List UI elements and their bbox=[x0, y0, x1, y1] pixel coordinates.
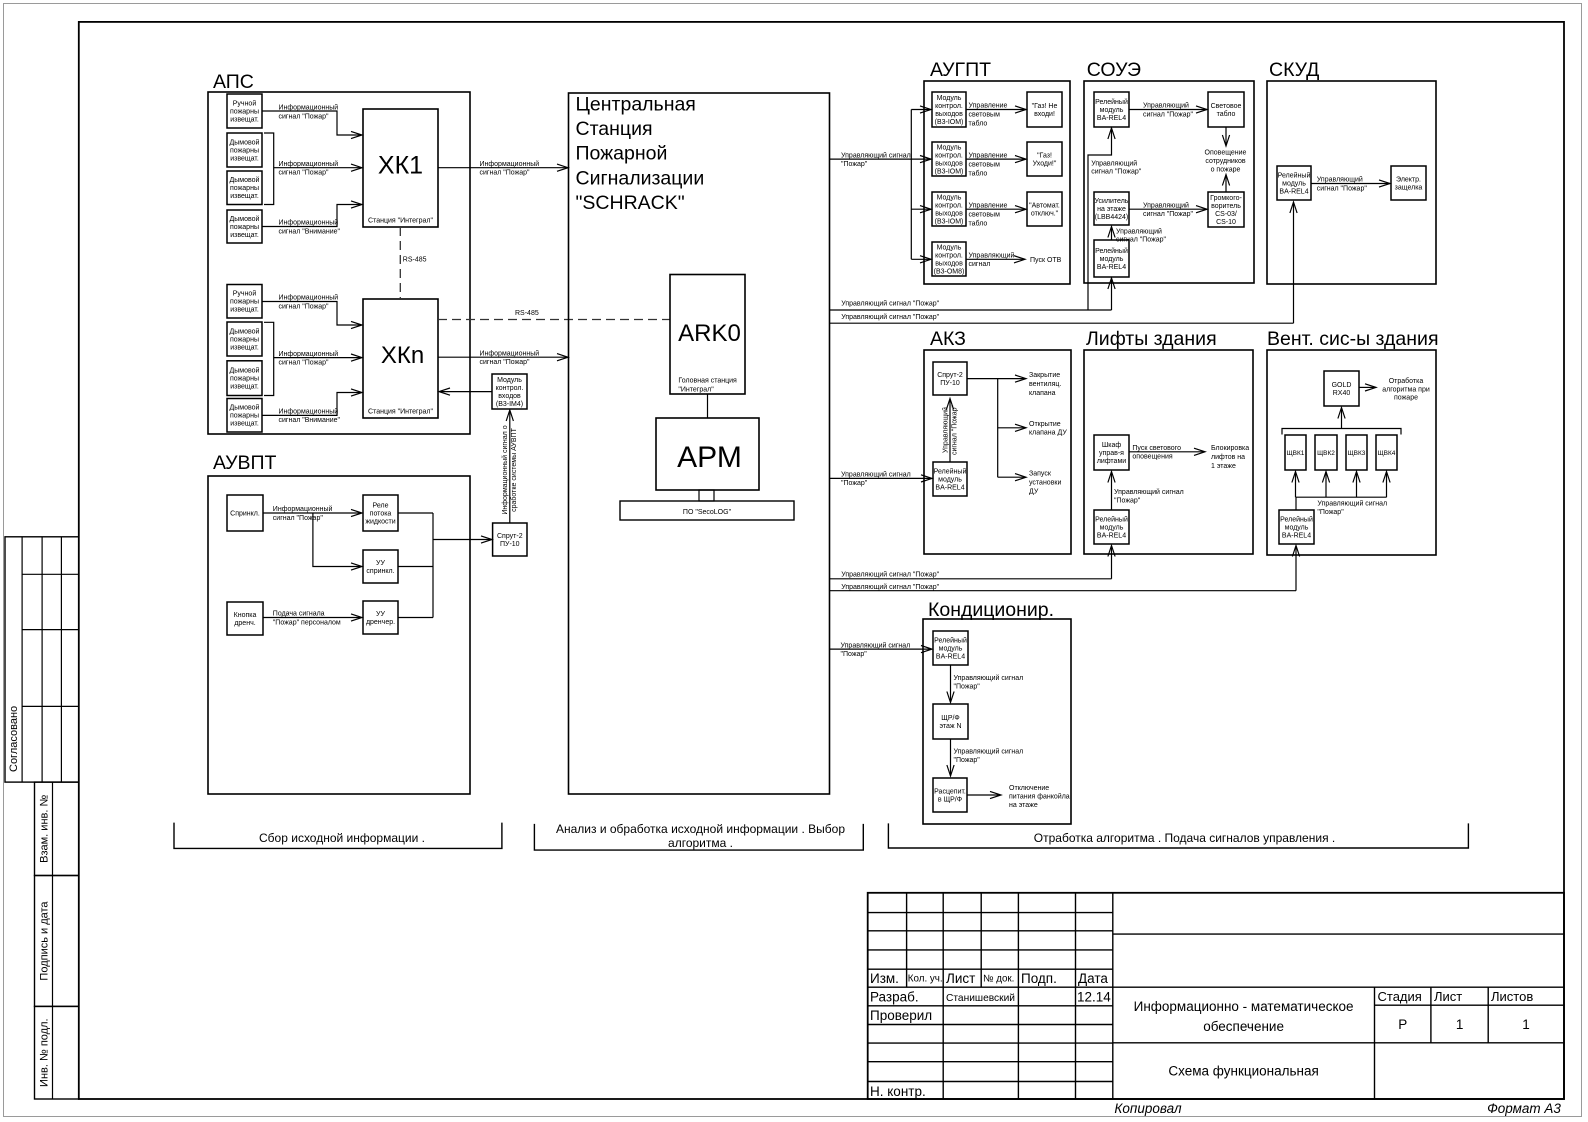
relay module BA-REL4 (Кондиционир) bbox=[933, 631, 968, 665]
dashed RS-485 link ХКn to ARK0 bbox=[438, 319, 670, 321]
relay module BA-REL4 (Вент) bbox=[1279, 510, 1314, 544]
detector box 8 (smoke) bbox=[227, 399, 262, 433]
svg-text:Усилитель: Усилитель bbox=[1095, 198, 1129, 205]
svg-text:Ручной: Ручной bbox=[233, 100, 257, 108]
svg-text:управ-я: управ-я bbox=[1099, 450, 1124, 457]
wire bracket to ХК1 bbox=[274, 167, 361, 169]
svg-text:алгоритма .: алгоритма . bbox=[668, 836, 733, 850]
svg-text:Реле: Реле bbox=[373, 503, 389, 510]
svg-text:Управляющий: Управляющий bbox=[1091, 160, 1137, 168]
bracket over ЩВК blocks bbox=[1282, 429, 1401, 435]
svg-text:BA-REL4: BA-REL4 bbox=[1097, 264, 1126, 271]
svg-text:RX40: RX40 bbox=[1333, 390, 1351, 397]
svg-text:пожарны: пожарны bbox=[230, 109, 259, 116]
svg-text:лифтами: лифтами bbox=[1097, 458, 1126, 465]
svg-text:Дымовой: Дымовой bbox=[230, 176, 260, 184]
svg-text:Управляющий: Управляющий bbox=[1143, 201, 1189, 209]
svg-text:Информационный: Информационный bbox=[273, 505, 333, 513]
svg-text:Информационный: Информационный bbox=[480, 349, 540, 357]
wire detector1 to ХК1 bbox=[262, 111, 361, 135]
wire ХКn output to central station bbox=[438, 356, 567, 358]
svg-text:12.14: 12.14 bbox=[1077, 990, 1111, 1005]
svg-text:клапана ДУ: клапана ДУ bbox=[1029, 430, 1067, 437]
svg-text:Лифты здания: Лифты здания bbox=[1086, 328, 1217, 350]
svg-text:Сбор исходной информации .: Сбор исходной информации . bbox=[259, 831, 425, 845]
bracket Сбор исходной информации bbox=[174, 823, 502, 849]
wire detector4 to ХК1 bbox=[262, 205, 361, 227]
svg-text:сигнал "Внимание": сигнал "Внимание" bbox=[279, 228, 341, 235]
margin table Согласовано bbox=[5, 537, 79, 782]
svg-text:Управление: Управление bbox=[969, 152, 1008, 159]
svg-text:Управляющий сигнал "Пожар": Управляющий сигнал "Пожар" bbox=[841, 313, 939, 321]
svg-text:Информационный: Информационный bbox=[279, 104, 339, 112]
wire ЩР/Ф to Расцепит bbox=[950, 739, 952, 775]
bracket detectors 6-7 bbox=[264, 322, 274, 395]
svg-text:сигнал "Пожар": сигнал "Пожар" bbox=[279, 359, 330, 366]
svg-text:ЩВК4: ЩВК4 bbox=[1378, 450, 1396, 457]
svg-text:сигнал "Пожар": сигнал "Пожар" bbox=[1317, 185, 1368, 192]
svg-text:Управляющий: Управляющий bbox=[969, 252, 1015, 260]
detector box 6 (smoke) bbox=[227, 322, 262, 356]
svg-text:контрол.: контрол. bbox=[935, 152, 963, 159]
svg-text:СОУЭ: СОУЭ bbox=[1087, 59, 1141, 81]
svg-text:Информационный: Информационный bbox=[279, 408, 339, 416]
APS enclosure box bbox=[208, 92, 470, 434]
wire relay to Световое табло bbox=[1129, 109, 1207, 111]
svg-text:УУ: УУ bbox=[376, 560, 385, 567]
svg-text:сигнал "Пожар": сигнал "Пожар" bbox=[1091, 169, 1142, 176]
svg-text:Уходи!": Уходи!" bbox=[1033, 160, 1057, 167]
svg-text:Модуль: Модуль bbox=[497, 377, 522, 384]
svg-text:дренч.: дренч. bbox=[234, 620, 255, 627]
detector box 3 (smoke) bbox=[227, 171, 262, 205]
wire detector5 to ХКn bbox=[262, 302, 361, 326]
svg-text:Листов: Листов bbox=[1491, 989, 1533, 1004]
block УУ спринкл. bbox=[363, 550, 398, 583]
svg-text:световым: световым bbox=[969, 161, 1001, 168]
svg-text:"Интеграл": "Интеграл" bbox=[678, 386, 714, 393]
svg-text:ПУ-10: ПУ-10 bbox=[500, 541, 520, 548]
svg-text:(В3-IOM): (В3-IOM) bbox=[935, 119, 964, 126]
svg-text:пожарны: пожарны bbox=[230, 224, 259, 231]
svg-text:сигнал "Пожар": сигнал "Пожар" bbox=[1143, 111, 1194, 118]
svg-text:сигнал "Пожар": сигнал "Пожар" bbox=[279, 303, 330, 310]
svg-text:модуль: модуль bbox=[1285, 525, 1309, 532]
detector box 2 (smoke) bbox=[227, 133, 262, 167]
svg-text:АПС: АПС bbox=[213, 71, 254, 93]
wire Усилитель to Громкоговоритель bbox=[1129, 208, 1207, 210]
svg-text:Управляющий сигнал: Управляющий сигнал bbox=[1317, 500, 1387, 508]
svg-text:"SCHRACK": "SCHRACK" bbox=[576, 192, 685, 214]
wire detector8 to ХКn bbox=[262, 393, 361, 416]
wire GOLD RX40 output bbox=[1359, 386, 1375, 388]
svg-text:Управляющий: Управляющий bbox=[1116, 228, 1162, 236]
svg-text:контрол.: контрол. bbox=[935, 103, 963, 110]
Vent enclosure box bbox=[1267, 350, 1436, 555]
svg-text:Станция "Интеграл": Станция "Интеграл" bbox=[368, 409, 433, 416]
svg-text:сработке системы АУВПТ: сработке системы АУВПТ bbox=[510, 427, 518, 511]
svg-text:BA-REL4: BA-REL4 bbox=[1097, 115, 1126, 122]
wire Расцепит output bbox=[967, 794, 1000, 796]
svg-text:пожарны: пожарны bbox=[230, 185, 259, 192]
svg-text:входов: входов bbox=[498, 393, 521, 400]
module B3-IM4 input control bbox=[492, 374, 527, 409]
svg-text:Отключение: Отключение bbox=[1009, 785, 1049, 792]
wire central to AUGPT trunk bbox=[830, 110, 931, 260]
svg-text:Стадия: Стадия bbox=[1378, 989, 1422, 1004]
svg-text:ДУ: ДУ bbox=[1029, 488, 1039, 495]
svg-text:Оповещение: Оповещение bbox=[1205, 150, 1247, 157]
wire Громкоговоритель notification arrow bbox=[1225, 176, 1227, 192]
svg-text:RS-485: RS-485 bbox=[403, 257, 427, 264]
svg-text:оповещения: оповещения bbox=[1132, 454, 1172, 461]
svg-text:клапана: клапана bbox=[1029, 390, 1056, 397]
svg-text:Модуль: Модуль bbox=[937, 144, 962, 151]
svg-text:"Пожар": "Пожар" bbox=[841, 651, 868, 658]
svg-text:АРМ: АРМ bbox=[677, 441, 742, 474]
svg-text:извещат.: извещат. bbox=[230, 117, 259, 124]
AKZ enclosure box bbox=[924, 350, 1071, 554]
svg-text:Дымовой: Дымовой bbox=[230, 404, 260, 412]
block Реле потока жидкости bbox=[363, 495, 398, 531]
svg-text:"Автомат.: "Автомат. bbox=[1029, 202, 1060, 209]
svg-text:Подпись и дата: Подпись и дата bbox=[39, 901, 51, 981]
svg-text:Управляющий сигнал "Пожар": Управляющий сигнал "Пожар" bbox=[841, 583, 939, 591]
svg-text:Кондиционир.: Кондиционир. bbox=[928, 599, 1054, 621]
SOUE enclosure box bbox=[1084, 81, 1254, 283]
margin cell Взам. инв. № bbox=[35, 782, 79, 875]
svg-text:Управляющий сигнал: Управляющий сигнал bbox=[841, 641, 911, 649]
block Кнопка дренч. bbox=[227, 602, 263, 635]
svg-text:Лист: Лист bbox=[1434, 989, 1462, 1004]
svg-text:Центральная: Центральная bbox=[576, 94, 696, 116]
svg-text:Управляющий сигнал: Управляющий сигнал bbox=[841, 151, 911, 159]
svg-text:"Пожар" персоналом: "Пожар" персоналом bbox=[273, 619, 341, 626]
wire Лифты relay to Шкаф bbox=[1111, 473, 1113, 510]
svg-text:табло: табло bbox=[969, 120, 988, 128]
svg-text:световым: световым bbox=[969, 112, 1001, 119]
detector box 1 (manual, upper) bbox=[227, 94, 262, 128]
block Спринкл. bbox=[227, 495, 263, 531]
svg-text:Подача сигнала: Подача сигнала bbox=[273, 611, 325, 618]
block ЩВК4 bbox=[1376, 435, 1397, 470]
svg-text:Анализ и обработка исходной ин: Анализ и обработка исходной информации .… bbox=[556, 822, 845, 836]
svg-text:извещат.: извещат. bbox=[230, 344, 259, 351]
svg-text:(В3-IOM): (В3-IOM) bbox=[935, 218, 964, 225]
svg-text:сигнал "Пожар": сигнал "Пожар" bbox=[1116, 237, 1167, 244]
svg-text:Модуль: Модуль bbox=[937, 244, 962, 251]
title block frame bbox=[868, 893, 1564, 1099]
svg-text:извещат.: извещат. bbox=[230, 193, 259, 200]
svg-text:1 этаже: 1 этаже bbox=[1211, 463, 1236, 470]
svg-text:Кнопка: Кнопка bbox=[234, 612, 257, 619]
svg-text:1: 1 bbox=[1522, 1017, 1530, 1032]
svg-text:Схема функциональная: Схема функциональная bbox=[1168, 1064, 1318, 1079]
block Расцепит. в ЩР/Ф bbox=[933, 778, 967, 812]
svg-text:АКЗ: АКЗ bbox=[930, 328, 966, 350]
wire lower relay to Усилитель bbox=[1111, 228, 1113, 240]
svg-text:воритель: воритель bbox=[1211, 203, 1241, 210]
svg-text:Изм.: Изм. bbox=[870, 971, 899, 986]
svg-text:Релейный: Релейный bbox=[1095, 98, 1128, 106]
APM stand connector bbox=[699, 490, 714, 501]
svg-text:контрол.: контрол. bbox=[496, 385, 524, 392]
margin cell Подпись и дата bbox=[35, 876, 79, 1007]
svg-text:Релейный: Релейный bbox=[1278, 171, 1311, 179]
svg-text:Спринкл.: Спринкл. bbox=[230, 511, 260, 518]
svg-text:BA-REL4: BA-REL4 bbox=[936, 654, 965, 661]
bracket detectors 2-3 bbox=[264, 133, 274, 205]
svg-text:Информационный: Информационный bbox=[279, 160, 339, 168]
svg-text:Копировал: Копировал bbox=[1114, 1101, 1182, 1116]
svg-text:"Пожар": "Пожар" bbox=[841, 161, 868, 168]
sign Газ! Уходи! bbox=[1027, 142, 1062, 176]
wire bus to СКУД relay bbox=[1293, 203, 1295, 323]
svg-text:ХК1: ХК1 bbox=[378, 152, 423, 180]
svg-text:табло: табло bbox=[969, 169, 988, 177]
block АРМ workstation bbox=[656, 418, 759, 490]
svg-text:Громкого-: Громкого- bbox=[1210, 195, 1242, 202]
wire bracket to ХКn bbox=[274, 357, 361, 359]
svg-text:ПО "SecoLOG": ПО "SecoLOG" bbox=[683, 509, 732, 516]
svg-text:Управляющий: Управляющий bbox=[1143, 102, 1189, 110]
svg-text:ПУ-10: ПУ-10 bbox=[940, 380, 960, 387]
svg-text:извещат.: извещат. bbox=[230, 384, 259, 391]
svg-text:Шкаф: Шкаф bbox=[1102, 442, 1122, 449]
block Спрут-2 ПУ-10 (АУВПТ) bbox=[493, 523, 527, 556]
sign Автомат. отключ. bbox=[1027, 192, 1062, 226]
svg-text:Дата: Дата bbox=[1078, 971, 1108, 986]
svg-text:Станция "Интеграл": Станция "Интеграл" bbox=[368, 218, 433, 225]
wire module3 to sign3 bbox=[966, 208, 1026, 210]
wire Спрут-2 to module B3-IM4 bbox=[509, 411, 511, 523]
svg-text:сигнал "Пожар": сигнал "Пожар" bbox=[480, 359, 531, 366]
svg-text:BA-REL4: BA-REL4 bbox=[935, 484, 964, 491]
svg-text:Управляющий: Управляющий bbox=[1317, 176, 1363, 184]
svg-text:АУГПТ: АУГПТ bbox=[930, 59, 991, 81]
svg-text:сигнал "Пожар": сигнал "Пожар" bbox=[952, 404, 959, 455]
svg-text:Релейный: Релейный bbox=[1095, 516, 1128, 524]
svg-text:Модуль: Модуль bbox=[937, 95, 962, 102]
svg-text:СКУД: СКУД bbox=[1269, 59, 1319, 81]
block Электр. защелка bbox=[1391, 166, 1426, 200]
svg-text:"Пожар": "Пожар" bbox=[841, 480, 868, 487]
svg-text:Дымовой: Дымовой bbox=[230, 367, 260, 375]
svg-text:выходов: выходов bbox=[935, 260, 963, 267]
svg-text:Открытие: Открытие bbox=[1029, 421, 1061, 428]
svg-text:Информационный сигнал о: Информационный сигнал о bbox=[501, 425, 509, 514]
block ЩВК3 bbox=[1346, 435, 1367, 470]
svg-text:входи!: входи! bbox=[1034, 111, 1055, 118]
svg-text:"Пожар": "Пожар" bbox=[1317, 509, 1344, 516]
svg-text:Управление: Управление bbox=[969, 103, 1008, 110]
svg-text:(В3-ОМ8): (В3-ОМ8) bbox=[934, 268, 965, 275]
block Спрут-2 ПУ-10 (АКЗ) bbox=[933, 362, 967, 395]
AUVPT enclosure box bbox=[208, 476, 470, 794]
svg-text:Подп.: Подп. bbox=[1021, 971, 1057, 986]
svg-text:ЩВК2: ЩВК2 bbox=[1317, 450, 1335, 457]
svg-text:Дымовой: Дымовой bbox=[230, 327, 260, 335]
svg-text:табло: табло bbox=[969, 219, 988, 227]
wire ARK0 to APM bbox=[707, 394, 709, 418]
svg-text:Закрытие: Закрытие bbox=[1029, 372, 1060, 379]
svg-text:Релейный: Релейный bbox=[1280, 516, 1313, 524]
detector box 4 (smoke) bbox=[227, 210, 262, 243]
svg-text:обеспечение: обеспечение bbox=[1203, 1019, 1284, 1034]
svg-text:Головная станция: Головная станция bbox=[678, 378, 737, 385]
svg-text:защелка: защелка bbox=[1395, 184, 1423, 191]
svg-text:Управляющий сигнал: Управляющий сигнал bbox=[1114, 488, 1184, 496]
svg-text:извещат.: извещат. bbox=[230, 421, 259, 428]
svg-text:GOLD: GOLD bbox=[1332, 382, 1352, 389]
svg-text:Пожарной: Пожарной bbox=[576, 143, 668, 165]
block ЩВК2 bbox=[1315, 435, 1337, 470]
svg-text:BA-REL4: BA-REL4 bbox=[1097, 533, 1126, 540]
svg-text:Управление: Управление bbox=[969, 202, 1008, 209]
svg-text:Станция: Станция bbox=[576, 118, 653, 140]
svg-text:RS-485: RS-485 bbox=[515, 310, 539, 317]
wire bus to СОУЭ upper relay bbox=[1088, 129, 1112, 310]
block ARK0 head station bbox=[670, 275, 745, 395]
svg-text:Спрут-2: Спрут-2 bbox=[497, 533, 523, 540]
svg-text:BA-REL4: BA-REL4 bbox=[1279, 188, 1308, 195]
svg-text:этаж N: этаж N bbox=[939, 723, 961, 730]
svg-text:Управляющий сигнал: Управляющий сигнал bbox=[954, 674, 1024, 682]
block GOLD RX40 bbox=[1324, 371, 1359, 406]
svg-text:Ручной: Ручной bbox=[233, 290, 257, 298]
wire module B3-IM4 to ХКn bbox=[440, 391, 492, 393]
relay module BA-REL4 (Лифты) bbox=[1094, 510, 1129, 544]
svg-text:Пуск светового: Пуск светового bbox=[1132, 445, 1181, 452]
svg-text:сигнал "Пожар": сигнал "Пожар" bbox=[279, 170, 330, 177]
svg-text:в ЩР/Ф: в ЩР/Ф bbox=[938, 797, 962, 804]
svg-text:"Пожар": "Пожар" bbox=[954, 684, 981, 691]
svg-text:"Газ! Не: "Газ! Не bbox=[1032, 103, 1058, 110]
svg-text:пожаре: пожаре bbox=[1394, 395, 1418, 402]
wire Кнопка дренч. to УУ дренчер. bbox=[263, 617, 361, 619]
svg-text:модуль: модуль bbox=[1100, 107, 1124, 114]
relay module BA-REL4 (АКЗ) bbox=[933, 462, 967, 496]
svg-text:модуль: модуль bbox=[1100, 525, 1124, 532]
svg-text:Управляющий сигнал "Пожар": Управляющий сигнал "Пожар" bbox=[841, 571, 939, 579]
wire central to АКЗ relay bbox=[830, 477, 932, 479]
svg-text:сигнал "Внимание": сигнал "Внимание" bbox=[279, 417, 341, 424]
svg-text:Релейный: Релейный bbox=[934, 637, 967, 645]
svg-text:пожарны: пожарны bbox=[230, 413, 259, 420]
svg-text:жидкости: жидкости bbox=[365, 519, 395, 526]
svg-text:извещат.: извещат. bbox=[230, 232, 259, 239]
wire Шкаф output Пуск светового оповещения bbox=[1129, 451, 1204, 453]
svg-text:Электр.: Электр. bbox=[1396, 176, 1421, 183]
svg-text:сигнал "Пожар": сигнал "Пожар" bbox=[279, 113, 330, 120]
svg-text:Н. контр.: Н. контр. bbox=[870, 1084, 926, 1099]
relay module BA-REL4 (СОУЭ upper) bbox=[1094, 92, 1129, 127]
svg-text:пожарны: пожарны bbox=[230, 147, 259, 154]
svg-text:Световое: Световое bbox=[1211, 103, 1242, 110]
svg-text:модуль: модуль bbox=[938, 476, 962, 483]
bracket Отработка алгоритма bbox=[888, 823, 1468, 848]
Lifts enclosure box bbox=[1084, 350, 1253, 554]
svg-text:Управляющий сигнал "Пожар": Управляющий сигнал "Пожар" bbox=[841, 300, 939, 308]
svg-text:потока: потока bbox=[370, 511, 392, 518]
module B3-OM8 bbox=[932, 242, 966, 276]
detector box 7 (smoke) bbox=[227, 361, 262, 396]
svg-text:Вент. сис-ы здания: Вент. сис-ы здания bbox=[1267, 328, 1439, 350]
module B3-IOM 3 bbox=[932, 192, 966, 226]
svg-text:(В3-IOM): (В3-IOM) bbox=[935, 168, 964, 175]
svg-text:пожарны: пожарны bbox=[230, 336, 259, 343]
svg-text:ХКn: ХКn bbox=[381, 342, 424, 369]
svg-text:Взам. инв. №: Взам. инв. № bbox=[39, 795, 51, 863]
svg-text:алгоритма при: алгоритма при bbox=[1382, 386, 1430, 393]
svg-text:Информационный: Информационный bbox=[279, 350, 339, 358]
svg-text:Дымовой: Дымовой bbox=[230, 138, 260, 146]
title block right structure bbox=[1113, 933, 1564, 935]
wire ХК1 output to central station bbox=[438, 167, 567, 169]
svg-text:пожарны: пожарны bbox=[230, 376, 259, 383]
wire module4 output Пуск ОТВ bbox=[966, 258, 1024, 260]
block Шкаф управ-я лифтами bbox=[1094, 435, 1129, 470]
svg-text:вентиляц.: вентиляц. bbox=[1029, 381, 1061, 388]
wire relay to ЩР/Ф bbox=[950, 665, 952, 701]
svg-text:Управляющий сигнал: Управляющий сигнал bbox=[954, 748, 1024, 756]
relay module BA-REL4 (СКУД) bbox=[1277, 166, 1311, 200]
svg-text:Спрут-2: Спрут-2 bbox=[937, 372, 963, 379]
dashed RS-485 link ХК1-ХКn bbox=[399, 227, 401, 299]
svg-text:BA-REL4: BA-REL4 bbox=[1282, 533, 1311, 540]
svg-text:1: 1 bbox=[1456, 1017, 1464, 1032]
svg-text:(В3-IM4): (В3-IM4) bbox=[496, 401, 523, 408]
wire relay to Электр. защелка bbox=[1311, 183, 1390, 185]
SKUD enclosure box bbox=[1267, 81, 1436, 284]
svg-text:ЩВК1: ЩВК1 bbox=[1287, 450, 1305, 457]
bus wire 2 Управляющий сигнал Пожар (to СКУД) bbox=[830, 322, 1294, 324]
svg-text:Станишевский: Станишевский bbox=[946, 993, 1015, 1004]
svg-text:№ док.: № док. bbox=[983, 974, 1014, 985]
svg-text:питания фанкойла: питания фанкойла bbox=[1009, 793, 1070, 801]
svg-text:Модуль: Модуль bbox=[937, 194, 962, 201]
block Громкоговоритель CS-03/CS-10 bbox=[1208, 192, 1244, 227]
svg-text:ЩР/Ф: ЩР/Ф bbox=[941, 715, 960, 722]
svg-text:Информационный: Информационный bbox=[279, 294, 339, 302]
wire Вент relay to ЩВК blocks bbox=[1296, 473, 1387, 510]
svg-text:CS-03/: CS-03/ bbox=[1215, 211, 1237, 218]
svg-text:выходов: выходов bbox=[935, 210, 963, 217]
svg-text:АУВПТ: АУВПТ bbox=[213, 452, 277, 474]
svg-text:Формат А3: Формат А3 bbox=[1487, 1101, 1561, 1116]
svg-text:Согласовано: Согласовано bbox=[8, 706, 20, 772]
svg-text:ЩВК3: ЩВК3 bbox=[1348, 450, 1366, 457]
svg-text:Управляющий сигнал: Управляющий сигнал bbox=[841, 471, 911, 479]
svg-text:УУ: УУ bbox=[376, 611, 385, 618]
block ЩВК1 bbox=[1285, 435, 1306, 470]
svg-text:Информационный: Информационный bbox=[480, 160, 540, 168]
svg-text:пожарны: пожарны bbox=[230, 299, 259, 306]
svg-text:"Газ!: "Газ! bbox=[1037, 152, 1052, 159]
svg-text:Информационный: Информационный bbox=[279, 219, 339, 227]
svg-text:контрол.: контрол. bbox=[935, 202, 963, 209]
svg-text:ARK0: ARK0 bbox=[678, 320, 741, 347]
Conditioning enclosure box bbox=[923, 619, 1071, 824]
svg-text:сигнал: сигнал bbox=[969, 261, 991, 268]
wire АКЗ relay to Спрут-2 bbox=[949, 400, 951, 462]
svg-text:Управляющий: Управляющий bbox=[942, 407, 950, 453]
wire central to Кондиционир relay bbox=[830, 648, 932, 650]
svg-text:Отработка алгоритма . Подача с: Отработка алгоритма . Подача сигналов уп… bbox=[1034, 831, 1335, 845]
svg-text:Расцепит.: Расцепит. bbox=[934, 789, 966, 796]
block УУ дренчер. bbox=[363, 601, 398, 634]
svg-text:световым: световым bbox=[969, 211, 1001, 218]
